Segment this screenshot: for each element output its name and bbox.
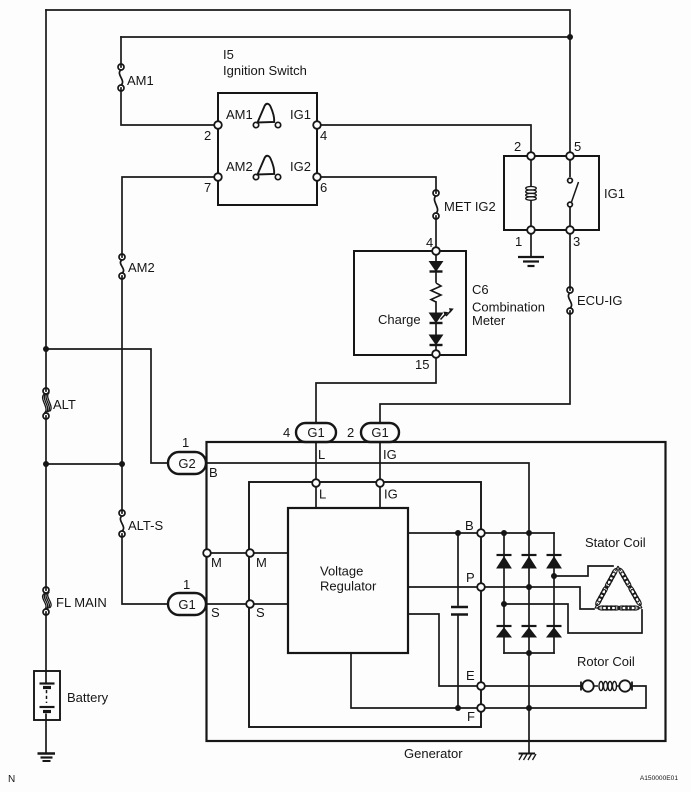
svg-text:IG2: IG2 bbox=[290, 159, 311, 174]
svg-text:1: 1 bbox=[183, 577, 190, 592]
svg-text:2: 2 bbox=[204, 128, 211, 143]
svg-text:S: S bbox=[256, 605, 265, 620]
svg-text:MET IG2: MET IG2 bbox=[444, 199, 496, 214]
svg-text:AM2: AM2 bbox=[128, 260, 155, 275]
svg-text:Rotor Coil: Rotor Coil bbox=[577, 654, 635, 669]
svg-text:AM1: AM1 bbox=[226, 107, 253, 122]
svg-text:G1: G1 bbox=[178, 597, 195, 612]
svg-text:IG: IG bbox=[383, 447, 397, 462]
svg-text:L: L bbox=[318, 447, 325, 462]
svg-text:C6: C6 bbox=[472, 282, 489, 297]
svg-text:I5: I5 bbox=[223, 47, 234, 62]
svg-text:IG: IG bbox=[384, 487, 398, 502]
svg-text:ALT: ALT bbox=[53, 397, 76, 412]
svg-text:Generator: Generator bbox=[404, 746, 463, 761]
svg-text:M: M bbox=[256, 555, 267, 570]
svg-text:AM2: AM2 bbox=[226, 159, 253, 174]
svg-text:Voltage: Voltage bbox=[320, 564, 363, 579]
svg-text:15: 15 bbox=[415, 357, 429, 372]
svg-text:4: 4 bbox=[283, 425, 290, 440]
svg-text:FL MAIN: FL MAIN bbox=[56, 595, 107, 610]
svg-text:G2: G2 bbox=[178, 456, 195, 471]
svg-text:S: S bbox=[211, 605, 220, 620]
svg-text:6: 6 bbox=[320, 180, 327, 195]
svg-text:IG1: IG1 bbox=[604, 186, 625, 201]
svg-text:4: 4 bbox=[320, 128, 327, 143]
svg-text:N: N bbox=[8, 774, 15, 785]
svg-text:7: 7 bbox=[204, 180, 211, 195]
svg-text:4: 4 bbox=[426, 235, 433, 250]
svg-text:ECU-IG: ECU-IG bbox=[577, 293, 623, 308]
svg-text:5: 5 bbox=[574, 139, 581, 154]
svg-text:2: 2 bbox=[347, 425, 354, 440]
svg-text:G1: G1 bbox=[371, 425, 388, 440]
svg-text:L: L bbox=[319, 487, 326, 502]
svg-text:AM1: AM1 bbox=[127, 73, 154, 88]
svg-text:G1: G1 bbox=[307, 425, 324, 440]
svg-text:Stator Coil: Stator Coil bbox=[585, 535, 646, 550]
svg-text:Regulator: Regulator bbox=[320, 579, 377, 594]
svg-text:B: B bbox=[209, 465, 218, 480]
svg-text:F: F bbox=[467, 709, 475, 724]
svg-text:P: P bbox=[466, 570, 475, 585]
svg-text:E: E bbox=[466, 668, 475, 683]
svg-text:IG1: IG1 bbox=[290, 107, 311, 122]
svg-text:Charge: Charge bbox=[378, 312, 421, 327]
svg-text:A150000E01: A150000E01 bbox=[640, 775, 678, 782]
svg-text:Battery: Battery bbox=[67, 690, 109, 705]
svg-text:1: 1 bbox=[182, 435, 189, 450]
svg-text:2: 2 bbox=[514, 139, 521, 154]
svg-text:ALT-S: ALT-S bbox=[128, 518, 163, 533]
svg-text:B: B bbox=[465, 518, 474, 533]
svg-text:Meter: Meter bbox=[472, 313, 506, 328]
svg-text:3: 3 bbox=[573, 234, 580, 249]
svg-text:M: M bbox=[211, 555, 222, 570]
svg-text:1: 1 bbox=[515, 234, 522, 249]
svg-text:Ignition Switch: Ignition Switch bbox=[223, 63, 307, 78]
